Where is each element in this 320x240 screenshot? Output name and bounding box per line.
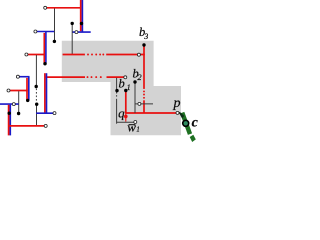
wire red vline 4 [8,105,10,136]
wire red vline q-pair [44,73,46,112]
wire blue vline 3 [28,77,30,101]
wire blue vline 4 [9,105,11,136]
node open circle gadget3 red start [7,89,10,92]
node dot gadget1 hang-line end [53,40,56,43]
svg-text:2: 2 [137,72,142,82]
node dot gadget1 pair [80,22,83,25]
node dot b2 [133,80,136,83]
wire thin vline T2 [71,24,73,54]
pen ring [183,120,189,126]
wire blue hline 4 [0,103,19,105]
wire red vline q [125,92,127,114]
pen cap [190,135,196,142]
node open circle marker on blue hline 1 [75,31,78,34]
svg-text:q: q [118,106,125,121]
node point p circle [176,111,179,114]
wire red hline q-gadget with ellipsis [46,76,85,78]
node open circle gadget2 blue start [34,30,37,33]
svg-text:b: b [119,77,125,91]
wire red hline 4 [9,125,45,127]
node open circle marker on blue hline 4 [12,103,15,106]
node open circle w1 bracket end [134,121,137,124]
node dot b3 [142,43,145,46]
node dot gadget3 pair end [26,99,29,102]
node dot gadget4 pair [8,112,11,115]
gray staircase region [62,41,181,136]
wire red hline 1 (top gadget) [47,7,82,9]
node open circle marker on long red hline [137,53,140,56]
node dot q-segment top [124,89,127,92]
node dot gadget2 pair end [43,62,46,65]
node dot gadget3 hang-line upper [35,85,38,88]
wire red hline 2a [28,54,45,56]
svg-text:1: 1 [127,83,131,92]
wire thin vline b2 [134,83,136,113]
wire blue hline 3 [19,76,29,78]
wire thin vline T3 [35,55,37,85]
node dot gadget3 hang-line lower [35,103,38,106]
wire blue hline 1 [72,31,90,33]
node open circle gadget1 red start [44,6,47,9]
svg-text:1: 1 [136,126,139,133]
pen body [180,112,192,135]
node open circle b1 red hline end [124,76,127,79]
wire blue hline 2 [37,31,54,33]
wire thin vline T4 [18,91,20,112]
wire red vline b3 with ellipsis [143,45,145,89]
svg-text:w: w [127,119,136,134]
pen icon [179,112,196,142]
svg-text:c: c [192,115,198,130]
wire blue vline 2 [45,32,47,64]
wire blue vline 1 [81,0,83,32]
node open circle gadget2 red start [25,53,28,56]
wire red vline 2 [43,33,45,64]
node open circle marker on dim line [138,102,141,105]
node dot t1 below b1 [115,89,118,92]
svg-text:3: 3 [143,32,148,41]
node dot gadget4 leader end [17,112,20,115]
wire thin dim hline upper [135,103,153,105]
wire red hline 3 [10,90,28,92]
wire red vline 3 [26,78,28,101]
pen tip [179,112,184,119]
node dot gadget1 leader top [71,22,74,25]
wire red hline 2b with ellipsis [63,54,85,56]
wire blue vline q-pair [46,73,48,113]
svg-text:p: p [173,96,181,111]
wire thin bracket hline w1 [117,121,135,123]
wire red hline p [126,112,180,114]
wire blue hline q-gadget [36,112,53,114]
wire thin vline T1 [54,9,56,41]
wire red vline 1 [80,0,82,31]
node open circle gadget4 red hline end [44,124,47,127]
node open circle gadget3 blue start [16,75,19,78]
node open circle gadget5 blue hline end [53,112,56,115]
wire thin vline T5 (q line) [116,78,118,90]
